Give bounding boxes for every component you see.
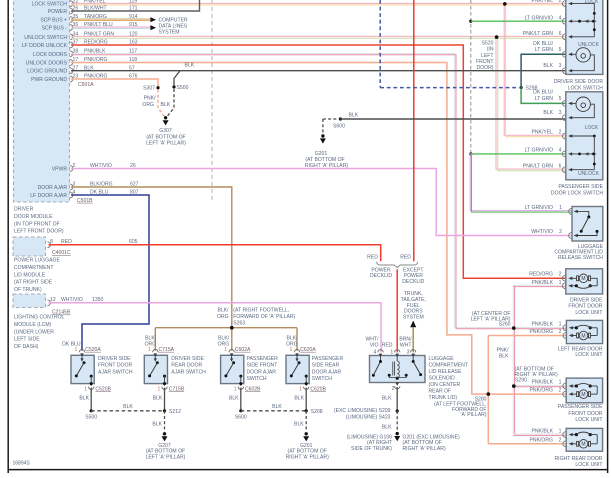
splice S500 top [172,85,175,88]
svg-text:TRUNK LID): TRUNK LID) [429,395,458,401]
passenger front ajar switch BLK pigtail [240,388,242,411]
svg-text:1: 1 [559,429,562,435]
splice dot overdraw S263 [230,326,234,330]
svg-text:LT GRN/VIO: LT GRN/VIO [525,205,553,211]
driver front ajar switch BLK pigtail [90,388,92,411]
wire BLK dashed S208 to ground G201 [305,411,307,432]
wire PNK/ORG vertical through S280 [487,336,489,444]
svg-text:2: 2 [559,388,562,394]
svg-text:LOCK UNIT: LOCK UNIT [575,462,602,468]
svg-text:BLK: BLK [161,102,171,108]
svg-text:WHT/: WHT/ [365,336,379,342]
svg-text:(AT RIGHT SIDE: (AT RIGHT SIDE [14,280,53,286]
svg-text:BLK/: BLK/ [218,308,230,314]
svg-text:1: 1 [290,347,293,353]
svg-text:LID RELEASE: LID RELEASE [429,369,462,375]
passenger rear ajar switch BLK pigtail [305,388,307,411]
ground G307 [164,116,167,119]
wire PNK/ORG to passenger front door lock unit [488,393,566,395]
svg-text:ORG: ORG [142,102,154,108]
luggage compartment lid release switch box [572,207,603,242]
passenger rear ajar switch internals [296,355,298,361]
svg-text:(IN TOP FRONT OF: (IN TOP FRONT OF [14,221,60,227]
svg-text:C520A: C520A [85,347,101,353]
svg-text:FORWARD OF 'A' PILLAR): FORWARD OF 'A' PILLAR) [233,314,295,320]
svg-text:C715A: C715A [159,347,175,353]
svg-text:FRONT DOOR: FRONT DOOR [568,411,602,417]
wire PNK/LT BLU 915 SCP bus- [71,26,150,28]
svg-text:DK BLU/: DK BLU/ [533,90,553,96]
svg-text:6: 6 [559,31,562,37]
solenoid right switch contact [412,356,414,361]
svg-text:BLK: BLK [543,63,553,69]
svg-text:BLK: BLK [499,354,509,360]
svg-text:COMPARTMENT: COMPARTMENT [14,265,53,271]
svg-text:S208: S208 [311,409,323,415]
svg-text:3: 3 [559,63,562,69]
pin parens passenger lock switch [562,101,565,107]
svg-text:OF TRUNK): OF TRUNK) [14,287,42,293]
driver lock switch pin4 internal wiper [572,20,596,22]
wire BLK from solenoid pin2 [396,387,398,411]
svg-text:RIGHT 'A' PILLAR): RIGHT 'A' PILLAR) [305,163,348,169]
svg-text:5: 5 [559,96,562,102]
splice S212 [163,409,166,412]
driver rear ajar switch bottom connector [162,387,167,390]
left rear door lock unit motor [572,335,576,337]
passenger lock switch pin6 internal [572,169,594,171]
driver lock switch pin6 internal [572,36,594,38]
svg-text:PNK/LT GRN: PNK/LT GRN [523,31,553,37]
svg-text:DRIVER SIDE: DRIVER SIDE [171,356,204,362]
svg-text:DOOR AJAR: DOOR AJAR [247,369,277,375]
wire PNK/BLK trunk vertical S260-S290 [512,285,514,434]
svg-text:1: 1 [390,350,393,356]
svg-text:S307: S307 [143,86,155,92]
svg-text:LF DOOR AJAR: LF DOOR AJAR [30,193,67,199]
svg-text:PNK/ORG: PNK/ORG [530,329,554,335]
svg-text:SOLENOID: SOLENOID [429,376,456,382]
svg-text:DRIVER: DRIVER [14,207,34,213]
svg-text:PNK/BLK: PNK/BLK [531,429,553,435]
svg-text:S263: S263 [233,320,245,326]
splice S298 [520,86,523,89]
svg-text:RELEASE SWITCH: RELEASE SWITCH [558,255,603,261]
driver lock switch contact link [593,13,595,36]
wire PNK/BLK 117 lock doors [71,53,566,327]
svg-text:SIDE OF TRUNK): SIDE OF TRUNK) [351,446,392,452]
solenoid coil [392,362,394,376]
svg-text:S260: S260 [499,322,511,328]
svg-text:C620A: C620A [300,347,316,353]
svg-text:4: 4 [559,148,562,154]
svg-text:WHT/VIO: WHT/VIO [531,229,553,235]
svg-text:FRONT DOOR: FRONT DOOR [98,363,132,369]
svg-text:4: 4 [373,350,376,356]
splice S307 [156,86,159,89]
svg-text:VPWR: VPWR [52,167,68,173]
wire BLK dashed S500 to S212 [91,410,164,412]
svg-text:FRONT: FRONT [476,59,494,65]
svg-text:RED: RED [382,343,393,349]
driver front ajar switch top connector [79,350,84,353]
svg-text:PNK/BLK: PNK/BLK [531,321,553,327]
svg-text:LF DOOR UNLOCK: LF DOOR UNLOCK [22,43,68,49]
svg-text:DRIVER SIDE: DRIVER SIDE [570,297,603,303]
wire DK BLU/LT GRN from driver lock switch to S298 [521,54,566,87]
wire PNK/LT GRN 120 unlock switch [71,35,566,37]
passenger front ajar switch top connector [229,350,234,353]
left rear door lock unit box [566,320,602,343]
passenger front door lock unit pin parens [563,391,566,397]
svg-text:RED: RED [367,255,378,261]
lighting control module LCM box [13,294,46,308]
wire DK BLU/LT GRN from S298 to passenger lock switch [521,88,566,104]
solenoid lower contacts [388,374,391,377]
pin parens luggage release switch [569,209,572,215]
svg-text:ORG: ORG [145,341,157,347]
splice S600 bottom [239,409,242,412]
svg-text:LT GRN/VIO: LT GRN/VIO [525,148,553,154]
svg-text:DOOR LOCK SWITCH: DOOR LOCK SWITCH [551,190,603,196]
svg-text:BLK: BLK [543,110,553,116]
solenoid left switch contact [380,356,382,361]
wire BLK to passenger lock switch pin3 [340,118,565,120]
wire RED/ORG 163 LF door unlock [71,45,566,278]
driver rear ajar switch top connector [153,350,158,353]
svg-text:DRIVER SIDE: DRIVER SIDE [98,356,131,362]
svg-text:1: 1 [559,321,562,327]
svg-text:LOCK SWITCH: LOCK SWITCH [32,2,68,8]
svg-text:M: M [581,392,585,398]
svg-text:OF DASH): OF DASH) [14,344,39,350]
passenger lock switch pin2 internal [572,135,594,137]
svg-text:2: 2 [559,130,562,136]
svg-text:SWITCH: SWITCH [312,376,332,382]
svg-text:C602B: C602B [245,387,261,393]
wire BLK/ORG 627 door ajar [71,187,232,328]
svg-text:WHT: WHT [400,343,412,349]
svg-text:SIDE FRONT: SIDE FRONT [247,363,278,369]
svg-text:2: 2 [559,0,562,4]
svg-text:AJAR SWITCH: AJAR SWITCH [98,369,133,375]
svg-text:C602A: C602A [235,347,251,353]
driver side door lock switch box [566,0,603,74]
wire DK BLU 807 LF door ajar [71,195,149,351]
driver front door lock unit clutch contacts [572,285,577,287]
wire PNK/BLK to right rear door lock unit [513,433,566,435]
svg-text:UNLOCK: UNLOCK [578,42,600,48]
svg-text:2: 2 [559,272,562,278]
svg-text:PNK/ORG: PNK/ORG [530,388,554,394]
driver rear ajar switch internals [154,355,156,361]
svg-text:SIDE REAR: SIDE REAR [312,363,340,369]
wire BLK drop to splice S500 [174,71,180,87]
ground G201 upper [321,134,324,137]
svg-text:VIO: VIO [370,343,379,349]
wire BLK/ORG drop to passenger front ajar switch [231,328,233,351]
svg-text:1: 1 [559,380,562,386]
svg-text:DOOR MODULE: DOOR MODULE [14,214,53,220]
svg-text:1: 1 [75,347,78,353]
svg-text:M: M [581,333,585,339]
wire BLK/ORG drop to driver rear ajar switch [154,328,156,351]
svg-text:MODULE (LCM): MODULE (LCM) [14,322,52,328]
wire BLK dashed S212 to ground G207 [164,411,166,432]
svg-text:ORG: ORG [286,341,298,347]
svg-text:POWER: POWER [48,9,68,15]
wire PNK/BLK to driver front door lock unit [513,284,566,286]
svg-text:LT GRN: LT GRN [535,96,554,102]
wire BLK/ORG bus to ajar switches [155,327,297,329]
solenoid bottom connector bracket [395,386,400,389]
svg-text:C501B: C501B [77,198,93,204]
svg-text:S520: S520 [482,41,494,47]
svg-text:3: 3 [559,110,562,116]
svg-text:BLK: BLK [185,62,195,68]
svg-text:PASSENGER: PASSENGER [312,356,344,362]
svg-text:PNK/BLK: PNK/BLK [531,280,553,286]
svg-text:C620B: C620B [310,387,326,393]
svg-text:LIGHTING CONTROL: LIGHTING CONTROL [14,315,65,321]
wire RED to luggage solenoid pin1 [396,269,398,352]
splice dot overdraw S260 [512,326,516,330]
svg-text:1: 1 [224,347,227,353]
svg-text:SCP BUS -: SCP BUS - [42,26,68,32]
left rear door lock unit clutch contacts [572,327,576,329]
svg-text:BLK: BLK [152,421,162,427]
svg-text:1: 1 [559,280,562,286]
svg-text:(LIMOUSINE) S423: (LIMOUSINE) S423 [346,414,391,420]
svg-text:2: 2 [559,229,562,235]
svg-text:1: 1 [234,387,237,393]
svg-text:'A' PILLAR): 'A' PILLAR) [460,412,486,418]
svg-text:BLK: BLK [349,112,359,118]
wire PNK/BLK to passenger front door lock unit [513,384,566,386]
node LT GRN/VIO junction passenger [469,152,472,155]
svg-text:S212: S212 [169,409,181,415]
svg-text:S600: S600 [235,415,247,421]
wire PNK/ORG dashed to ground G307 [158,90,164,117]
svg-text:2: 2 [392,386,395,392]
svg-text:LEFT SIDE: LEFT SIDE [14,337,40,343]
wire LT GRN/VIO dashed vertical [470,0,472,154]
svg-text:LOCK: LOCK [585,125,599,131]
svg-text:C4001C: C4001C [52,250,71,256]
wire BLK dashed S600 to S208 [241,410,306,412]
splice S290 [512,385,515,388]
splice S520 [495,36,498,39]
svg-text:LID MODULE: LID MODULE [14,272,46,278]
svg-text:LUGGAGE: LUGGAGE [429,356,455,362]
connector C501 boundary dashed line [211,0,213,201]
svg-text:ORG: ORG [217,314,229,320]
svg-text:ORG: ORG [218,341,230,347]
splice dot overdraw S280 [487,392,491,396]
svg-text:LOGIC GROUND: LOGIC GROUND [27,69,67,75]
svg-text:BLK: BLK [294,396,304,402]
passenger front ajar switch box [221,355,244,383]
svg-text:PASSENGER SIDE: PASSENGER SIDE [558,404,603,410]
arrow to trunk system [410,321,416,328]
svg-text:BLK: BLK [294,421,304,427]
node splice on PNK/YEL [503,2,506,5]
passenger lock switch lamp link to pin3 [572,104,594,118]
wire PNK/ORG to left rear door lock unit [488,335,566,337]
solenoid top connector brackets [378,350,383,353]
svg-text:S500: S500 [85,415,97,421]
svg-text:5: 5 [559,47,562,53]
svg-text:PASSENGER: PASSENGER [247,356,279,362]
svg-text:6: 6 [559,163,562,169]
svg-text:LT GRN/VIO: LT GRN/VIO [525,15,553,21]
svg-text:C520B: C520B [95,387,111,393]
svg-text:LEFT 'A' PILLAR): LEFT 'A' PILLAR) [146,141,186,147]
svg-text:1: 1 [559,205,562,211]
svg-text:(EXC LIMOUSINE) S209: (EXC LIMOUSINE) S209 [334,408,391,414]
svg-text:C715B: C715B [169,387,185,393]
wire PNK/ORG to right rear door lock unit [488,443,566,445]
svg-text:FRONT DOOR: FRONT DOOR [568,304,602,310]
luggage compartment lid release solenoid box [370,356,426,383]
driver front door lock unit box [566,269,603,294]
wire DK BLU/LT GRN dashed from top [379,0,381,88]
svg-text:BLK: BLK [382,424,392,430]
driver lock switch illumination lamp [576,48,590,62]
svg-text:DK BLU: DK BLU [62,341,81,347]
svg-text:1: 1 [299,387,302,393]
svg-text:UNLOCK: UNLOCK [578,171,600,177]
svg-text:BLK: BLK [272,404,282,410]
svg-text:RED/ORG: RED/ORG [529,272,553,278]
svg-text:LEFT 'A' PILLAR): LEFT 'A' PILLAR) [146,454,186,460]
svg-text:LOCK UNIT: LOCK UNIT [575,352,602,358]
svg-text:LOCK SWITCH: LOCK SWITCH [568,85,604,91]
driver rear ajar switch box [144,355,167,383]
passenger rear ajar switch top connector [294,350,299,353]
node LT GRN/VIO junction driver [469,20,472,23]
svg-text:SYSTEM: SYSTEM [159,30,180,36]
svg-text:SYSTEM: SYSTEM [403,314,424,320]
svg-text:PNK/BLK: PNK/BLK [531,380,553,386]
wire BLK dashed from ground G201 to S600 [323,118,338,120]
driver rear ajar switch BLK pigtail [164,388,166,411]
ground G106 G201 lower right [396,432,399,435]
splice S280 [487,393,490,396]
driver front ajar switch internals [81,355,83,361]
svg-text:BLK: BLK [79,396,89,402]
svg-text:S500: S500 [177,85,189,91]
pin parens driver lock switch [562,1,565,7]
svg-text:UNLOCK SWITCH: UNLOCK SWITCH [24,35,67,41]
wire LT GRN/VIO to driver lock switch [471,20,566,22]
svg-text:LEFT FRONT DOOR): LEFT FRONT DOOR) [14,229,64,235]
svg-text:DOOR AJAR: DOOR AJAR [38,185,68,191]
svg-text:16894S: 16894S [13,461,31,467]
svg-text:RED: RED [400,255,411,261]
right rear door lock unit box [566,428,602,451]
svg-text:M: M [581,442,585,448]
splice dot overdraw PNK/YEL [503,2,507,6]
splice dot overdraw S520 [495,35,499,39]
splice S263 [230,326,233,329]
brace joining RED wires [377,262,418,268]
wire WHT/VIO 26 vpwr [71,169,572,236]
svg-text:PNK/: PNK/ [144,96,156,102]
splice S600 upper [339,117,342,120]
page frame border [7,0,9,473]
svg-text:DECKLID: DECKLID [402,279,424,285]
splice S500 bottom [90,409,93,412]
passenger lock switch pin4 internal wiper [572,153,596,155]
svg-text:1: 1 [148,347,151,353]
left rear door lock unit pin parens [563,333,566,339]
svg-text:POWER LUGGAGE: POWER LUGGAGE [14,258,60,264]
power luggage compartment lid module box [13,237,46,256]
wire PNK/ORG 676 pwr ground [71,79,158,88]
svg-text:LOCK: LOCK [585,0,599,5]
passenger front door lock unit internal link [596,386,598,394]
wire BLK/ORG drop to passenger rear ajar switch [296,328,298,351]
svg-text:2: 2 [559,437,562,443]
svg-text:PNK/ORG: PNK/ORG [530,437,554,443]
svg-text:BRN/: BRN/ [399,336,412,342]
svg-text:RIGHT 'A' PILLAR): RIGHT 'A' PILLAR) [403,446,446,452]
svg-text:(IN: (IN [487,47,494,53]
wire RED from top except power decklid [413,0,415,261]
svg-text:BLK: BLK [229,396,239,402]
passenger rear ajar switch box [286,355,309,383]
svg-text:REAR OF: REAR OF [429,389,452,395]
passenger side door lock switch box [566,92,603,180]
svg-text:1: 1 [84,387,87,393]
passenger front ajar switch internals [231,355,233,361]
svg-text:4: 4 [559,15,562,21]
svg-text:LOCK DOORS: LOCK DOORS [33,52,68,58]
wire BLK dashed to ground G307 [167,89,174,116]
ground G207 [163,432,166,435]
driver front door lock unit pin parens [562,275,565,281]
svg-text:UNLOCK DOORS: UNLOCK DOORS [26,61,68,67]
svg-text:DK BLU/: DK BLU/ [533,41,553,47]
driver front door lock unit motor [572,277,577,279]
wire BLK dashed to ground G106/G201 [396,411,398,432]
splice S208 [305,409,308,412]
wire PNK/ORG 118 unlock doors [71,63,488,395]
svg-text:REAR DOOR: REAR DOOR [171,363,202,369]
passenger lock switch illumination lamp [576,97,590,111]
svg-text:PNK/YEL: PNK/YEL [531,130,553,136]
svg-text:(ON CENTER: (ON CENTER [429,382,461,388]
wire PNK/LT GRN vertical to passenger switch pin6 [496,37,566,169]
splice dot overdraw S290 [512,384,516,388]
svg-text:PNK/: PNK/ [497,348,509,354]
svg-text:SCP BUS +: SCP BUS + [40,18,67,24]
driver front ajar switch box [71,355,94,383]
driver lock switch lamp link to pin3 [572,55,594,71]
driver front door lock unit internal link [596,278,598,286]
wire BLK 57 logic ground [71,70,566,72]
svg-text:LOCK UNIT: LOCK UNIT [575,417,602,423]
left rear door lock unit internal link [596,328,598,336]
driver door module C501 box [14,0,70,202]
svg-text:(UNDER LOWER: (UNDER LOWER [14,329,54,335]
wire PNK/YEL vertical to passenger switch [504,4,566,135]
svg-text:M: M [581,276,585,282]
right rear door lock unit motor [572,443,576,445]
svg-text:1: 1 [157,387,160,393]
svg-text:BLK: BLK [153,396,163,402]
